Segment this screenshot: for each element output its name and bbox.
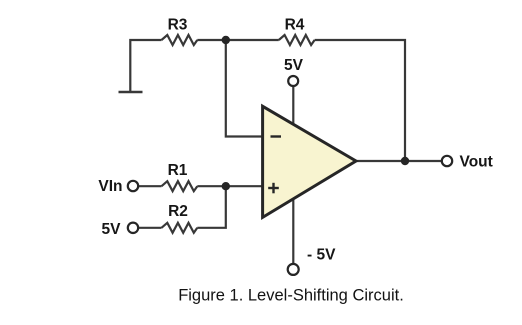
svg-text:Vout: Vout: [460, 154, 493, 171]
svg-text:5V: 5V: [284, 57, 304, 74]
svg-text:R3: R3: [168, 17, 188, 34]
svg-text:VIn: VIn: [98, 178, 122, 195]
svg-text:R2: R2: [168, 203, 188, 220]
svg-text:R1: R1: [168, 162, 188, 179]
svg-text:Figure 1. Level-Shifting Circu: Figure 1. Level-Shifting Circuit.: [178, 287, 404, 305]
svg-text:5V: 5V: [102, 221, 122, 238]
svg-text:R4: R4: [285, 17, 305, 34]
svg-text:- 5V: - 5V: [307, 247, 336, 264]
